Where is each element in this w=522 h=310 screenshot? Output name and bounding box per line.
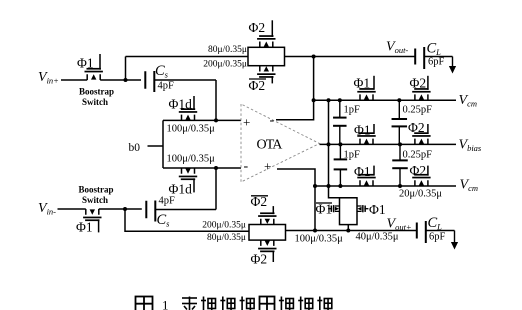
transistor top TG lower (Phi2bar) (257, 66, 275, 84)
wire node A up to top TG feed (125, 57, 127, 81)
svg-text:Boostrap: Boostrap (78, 185, 113, 195)
svg-text:1pF: 1pF (344, 150, 361, 161)
op-amp OTA triangle (241, 104, 320, 182)
svg-text:Φ1d: Φ1d (169, 182, 193, 197)
node A junction dot (124, 78, 128, 82)
wire Cs to vertical riser (154, 79, 216, 81)
wire OTA top output (276, 57, 314, 120)
node dot mid TG output (346, 229, 350, 233)
svg-text:100μ/0.35μ: 100μ/0.35μ (167, 154, 216, 165)
node dot 1pF row1 (338, 98, 342, 102)
node dot row1 tee (312, 98, 316, 102)
svg-text:Φ1: Φ1 (316, 202, 333, 217)
wire Vin- to bootstrap switch (58, 208, 86, 210)
transmission gate top box (248, 47, 285, 65)
wire Vin+ to bootstrap switch (61, 79, 87, 81)
svg-text:Switch: Switch (82, 195, 108, 205)
svg-text:Φ1d: Φ1d (169, 97, 193, 112)
wire CL bottom to ground arrow (426, 230, 455, 232)
svg-text:200μ/0.35μ: 200μ/0.35μ (203, 60, 247, 70)
svg-text:6pF: 6pF (428, 57, 445, 68)
capacitor 0.25pF row1-2 (398, 100, 400, 119)
wire b0 lead (148, 145, 164, 147)
svg-text:40μ/0.35μ: 40μ/0.35μ (356, 232, 399, 243)
wire vertical down to Phi1d top row (215, 80, 217, 120)
node dot Vout+ tee (313, 229, 317, 233)
transistor mid TG left (Phi1bar) (328, 205, 339, 212)
transistor bootstrap switch bottom (Phi1) (83, 209, 101, 232)
wire cmfb bus vertical (329, 100, 358, 198)
transmission gate middle box (340, 198, 358, 225)
wire Phi1d top row (163, 119, 241, 121)
wire Vout- line (285, 56, 416, 58)
transistor Phi1 row1 (357, 76, 375, 100)
svg-text:Φ1: Φ1 (76, 220, 93, 235)
svg-text:-: - (244, 159, 249, 174)
node dot 0.25pF row2 (398, 142, 402, 146)
svg-text:Φ1: Φ1 (354, 76, 371, 91)
svg-text:+: + (243, 115, 250, 130)
wire OTA bottom output (277, 169, 315, 231)
wire CL top to ground arrow (424, 56, 452, 58)
wire to top transmission gate (126, 56, 249, 58)
svg-text:Boostrap: Boostrap (79, 87, 114, 97)
transistor bottom TG lower (Phi2) (258, 240, 276, 262)
svg-text:6pF: 6pF (429, 232, 446, 243)
svg-text:4pF: 4pF (158, 81, 175, 92)
wire Phi1d bottom row (163, 167, 241, 169)
wire b0 bus vertical (162, 120, 164, 168)
svg-text:200μ/0.35μ: 200μ/0.35μ (202, 221, 246, 231)
node dot 1pF row3 (338, 184, 342, 188)
svg-text:Φ1: Φ1 (354, 164, 371, 179)
svg-text:1: 1 (162, 298, 169, 310)
capacitor CL bottom (6pF) (417, 221, 426, 243)
svg-text:Φ1: Φ1 (77, 56, 94, 71)
svg-text:OTA: OTA (257, 138, 284, 153)
node dot bus row2 (327, 142, 331, 146)
node dot bus row3 (327, 184, 331, 188)
svg-text:Φ2: Φ2 (410, 163, 427, 178)
transistor Phi2 row1 (412, 76, 430, 100)
transistor mid TG right (Phi1) (357, 205, 368, 212)
node dot bus row1 (327, 98, 331, 102)
transistor Phi2 row2 (412, 124, 430, 144)
node B junction dot (123, 207, 127, 211)
transmission gate bottom box (249, 225, 286, 241)
svg-text:Φ1: Φ1 (354, 123, 371, 138)
svg-text:Φ2: Φ2 (410, 76, 427, 91)
node dot 0.25pF row3 (398, 184, 402, 188)
wire switch to node A (100, 79, 141, 81)
node dot top output to Vout- wire (312, 55, 316, 59)
svg-text:80μ/0.35μ: 80μ/0.35μ (207, 233, 246, 243)
node dot 0.25pF row1 (397, 98, 401, 102)
transistor Phi1 row3 (357, 166, 375, 186)
svg-text:1pF: 1pF (344, 105, 361, 116)
wire row3 (to Vcm bottom) (315, 185, 456, 187)
capacitor CL top (6pF) (415, 47, 424, 69)
wire row1 (to Vcm top) (314, 99, 456, 101)
node dot 1pF row2 (338, 142, 342, 146)
wire Cs bottom to vertical riser (155, 209, 216, 211)
transistor Phi1d bottom (179, 168, 197, 192)
svg-text:Switch: Switch (82, 97, 108, 107)
transistor bootstrap switch top (Phi1) (85, 54, 103, 80)
transistor Phi2 row3 (412, 166, 430, 186)
svg-text:-: - (270, 113, 275, 128)
wire Vout+ line (286, 230, 417, 232)
svg-text:Φ2: Φ2 (249, 20, 266, 35)
caption figure title (Chinese, cut off at bottom) (136, 297, 153, 310)
svg-text:Φ2: Φ2 (249, 78, 266, 93)
wire vertical up to Phi1d bottom row (215, 168, 217, 210)
svg-text:4pF: 4pF (159, 196, 176, 207)
ground arrow top (449, 57, 456, 74)
svg-text:Φ2: Φ2 (251, 252, 268, 267)
svg-text:100μ/0.35μ: 100μ/0.35μ (167, 124, 216, 135)
capacitor Cs bottom (4pF) (146, 201, 155, 222)
wire mid TG bottom stub (347, 225, 349, 231)
svg-text:b0: b0 (129, 142, 141, 154)
transistor Phi1d top (179, 96, 197, 120)
svg-text:20μ/0.35μ: 20μ/0.35μ (399, 189, 442, 200)
svg-text:80μ/0.35μ: 80μ/0.35μ (208, 45, 247, 55)
transistor bottom TG upper (Phi2bar) (258, 206, 276, 224)
svg-text:100μ/0.35μ: 100μ/0.35μ (295, 234, 344, 245)
capacitor Cs top (4pF) (145, 71, 154, 92)
node junction dot Phi1d top right (214, 118, 218, 122)
transistor Phi1 row2 (357, 124, 375, 144)
svg-text:+: + (264, 159, 271, 174)
capacitor 0.25pF row2-3 (399, 144, 401, 160)
transistor top TG upper (Phi2) (257, 20, 275, 47)
capacitor 1pF row1-2 (339, 100, 341, 117)
ground arrow bottom (451, 231, 458, 250)
wire switch to node B (99, 208, 142, 210)
node dot row3 tee (313, 184, 317, 188)
svg-text:Φ1: Φ1 (369, 202, 386, 217)
capacitor 1pF row2-3 (339, 144, 341, 159)
svg-text:0.25pF: 0.25pF (403, 150, 433, 161)
svg-text:Φ2: Φ2 (408, 120, 425, 135)
wire row2 (OTA apex to Vbias) (320, 143, 457, 145)
wire node B down and right to bottom TG (125, 209, 249, 231)
node junction dot Phi1d bottom right (214, 166, 218, 170)
svg-text:0.25pF: 0.25pF (403, 105, 433, 116)
